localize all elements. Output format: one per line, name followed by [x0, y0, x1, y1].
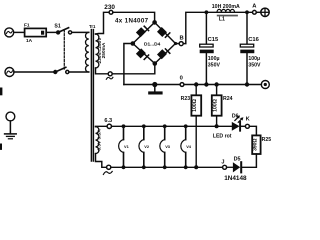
svg-text:250mA: 250mA [101, 42, 107, 58]
node A terminal circle [253, 10, 257, 14]
wire R25 bottom to D5 cathode [242, 154, 256, 167]
wire AC2 terminal to bridge bottom vertex [112, 66, 155, 74]
heater bottom bus [111, 166, 223, 168]
scan mark left edge 2 [0, 144, 2, 150]
fuse F1 [25, 28, 47, 36]
svg-text:S1: S1 [54, 24, 60, 30]
heater bottom terminal circle [107, 165, 111, 169]
wire LED to node K [241, 125, 245, 127]
tube heater V2 [139, 124, 146, 169]
scan mark left edge 1 [0, 88, 2, 96]
svg-text:C16: C16 [248, 37, 259, 43]
AC input terminal L (circle with sine) [5, 28, 14, 37]
wire 230 tap to bridge top vertex [113, 12, 155, 22]
capacitor C16 riser top [246, 12, 248, 43]
junction dot R23 top [194, 82, 198, 86]
switch gang dashed link [63, 30, 65, 70]
svg-text:100Ω: 100Ω [192, 99, 198, 112]
ground rail 0V [124, 84, 261, 86]
wire 6.3V top to heater top terminal [96, 125, 108, 127]
tube heater V4 [181, 124, 188, 169]
switch S1 pole b [53, 67, 69, 74]
node B terminal circle [179, 42, 183, 46]
transformer HV secondary winding [96, 34, 99, 68]
fuse F1 inner mark [41, 31, 44, 35]
junction dot C15 top [205, 10, 209, 14]
wire fuse to switch S1a [46, 31, 57, 33]
svg-text:4x 1N4007: 4x 1N4007 [115, 17, 149, 24]
resistor R23 lead bottom (crosses heater bus) [195, 116, 197, 168]
wire 6.3V bottom to heater bottom terminal [96, 154, 107, 168]
resistor R23 lead top [195, 85, 197, 96]
wire switch S1a to transformer primary top [72, 31, 89, 33]
svg-text:J: J [221, 159, 224, 165]
svg-text:R24: R24 [223, 96, 233, 102]
svg-text:Tr1: Tr1 [89, 24, 96, 29]
svg-text:D6: D6 [232, 113, 239, 119]
junction dot C15 bottom [204, 82, 208, 86]
node J terminal circle [223, 165, 227, 169]
junction dot ground [152, 82, 157, 87]
svg-text:D5: D5 [234, 157, 241, 163]
HV secondary terminal circle [108, 72, 112, 76]
bridge diode D1 (left to top) [136, 26, 149, 37]
wire switch S1b to transformer primary bottom [69, 71, 89, 73]
wire node A to + output terminal [256, 11, 261, 13]
bridge diode D4 (bottom to right) [157, 49, 170, 59]
bridge diode D3 (left to bottom) [136, 48, 149, 59]
switch S1 pole a [56, 28, 72, 35]
transformer core [90, 30, 92, 161]
wire bridge left vertex down to ground rail [124, 44, 133, 85]
svg-text:100µ: 100µ [208, 56, 220, 62]
transformer 6.3V heater winding [96, 127, 99, 154]
LED D6 [232, 122, 240, 131]
svg-text:1N4148: 1N4148 [224, 175, 247, 182]
capacitor C15 riser top [205, 12, 207, 43]
earth ground symbol [5, 134, 17, 139]
diode D5 [227, 162, 242, 172]
resistor R24 [212, 95, 222, 115]
output terminal 0 (circle with dot) [261, 81, 269, 89]
svg-text:R23: R23 [181, 96, 191, 102]
svg-text:D1...D4: D1...D4 [144, 42, 161, 48]
capacitor C16 riser bottom [246, 53, 248, 84]
resistor R24 lead bottom [216, 116, 218, 127]
wire HV secondary bottom to AC2 terminal [96, 68, 109, 74]
node 0 terminal circle [180, 83, 184, 87]
heater top bus [112, 125, 232, 127]
svg-text:K: K [246, 117, 250, 123]
wire AC-N to switch S1b [14, 71, 54, 73]
svg-text:A: A [252, 3, 257, 9]
AC input terminal N (circle with sine) [5, 68, 14, 77]
svg-text:B: B [180, 35, 184, 41]
tube heater V3 [160, 124, 167, 169]
svg-text:V3: V3 [165, 144, 171, 149]
earth terminal circle [6, 112, 15, 121]
svg-text:230: 230 [104, 4, 115, 11]
junction dot bridge top vertex [152, 20, 157, 25]
LED D6 emission arrows [235, 115, 244, 122]
svg-text:V1: V1 [124, 144, 130, 149]
capacitor C15 riser bottom [205, 53, 207, 84]
svg-text:6.3: 6.3 [104, 118, 112, 124]
junction dot bridge left vertex [131, 41, 136, 46]
svg-text:1A: 1A [26, 38, 33, 44]
junction dot C16 bottom [245, 82, 249, 86]
resistor R24 lead top [216, 85, 218, 96]
wire HV secondary top to 230 tap [96, 12, 110, 34]
label ~ (6.3V winding) [103, 171, 112, 174]
transformer Tr1 primary winding [86, 32, 89, 72]
resistor R23 [191, 95, 201, 115]
wire node K to R25 [249, 126, 256, 135]
inductor L1 [217, 9, 238, 16]
svg-text:C15: C15 [208, 37, 219, 43]
svg-text:LED rot: LED rot [213, 134, 232, 140]
bridge diode D2 (top to right) [157, 27, 170, 37]
svg-text:350V: 350V [248, 62, 261, 68]
label ~ (HV secondary) [106, 77, 113, 79]
junction dot R24 top [214, 82, 218, 86]
svg-text:6.3V 3.5A: 6.3V 3.5A [97, 129, 103, 151]
capacitor C16 [240, 44, 254, 53]
earth stem [9, 121, 11, 133]
junction dot R23 bottom [194, 165, 198, 169]
svg-text:R25: R25 [262, 137, 272, 143]
node 230 tap terminal circle [109, 10, 113, 14]
heater top terminal circle [107, 124, 111, 128]
bridge rectifier diamond [133, 22, 176, 63]
resistor R25 [252, 135, 260, 154]
wire AC-L to fuse [14, 31, 25, 33]
node K terminal circle [245, 124, 249, 128]
junction dot R24 bottom [215, 124, 219, 128]
svg-text:L1: L1 [219, 17, 225, 23]
ground symbol [148, 85, 162, 95]
svg-text:390Ω: 390Ω [252, 139, 258, 151]
svg-text:350V: 350V [208, 62, 221, 68]
tube heater V1 [119, 124, 126, 169]
svg-text:0: 0 [180, 76, 183, 82]
wire node B up to DC top rail [183, 12, 252, 43]
output terminal + (circle with cross) [261, 8, 269, 16]
junction dot bridge bottom vertex [153, 61, 158, 66]
svg-text:100Ω: 100Ω [213, 99, 219, 112]
junction dot C16 top [245, 10, 249, 14]
svg-text:V4: V4 [186, 144, 192, 149]
junction dot bridge right vertex [174, 42, 177, 45]
svg-text:F1: F1 [24, 23, 30, 29]
capacitor C15 [200, 44, 214, 53]
wire bridge right vertex to node B [176, 43, 180, 45]
svg-text:100µ: 100µ [248, 56, 260, 62]
svg-text:10H 200mA: 10H 200mA [212, 4, 240, 10]
svg-text:V2: V2 [144, 144, 150, 149]
